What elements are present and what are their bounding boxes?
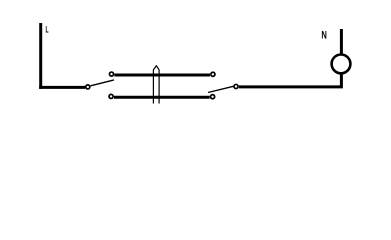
svg-text:N: N [321, 30, 327, 42]
switch SW2 blade [208, 86, 233, 92]
switch SW1 common terminal [86, 85, 90, 89]
wire: L feed vertical [39, 23, 42, 89]
cable loop [153, 66, 159, 104]
wire: L feed horizontal to SW1 common [39, 86, 85, 89]
wire: traveler bottom [114, 96, 210, 99]
switch SW2 common terminal [234, 84, 238, 88]
switch SW1 terminal 2 [109, 94, 113, 98]
switch SW2 terminal 2 [211, 95, 215, 99]
switch SW2 terminal 1 [211, 72, 215, 76]
svg-text:L: L [46, 24, 49, 34]
switch SW1 terminal 1 [109, 72, 113, 76]
lamp E1 [332, 55, 351, 74]
switch SW1 blade [91, 80, 114, 86]
wire: traveler top [114, 74, 210, 77]
wire: N feed vertical [340, 29, 343, 54]
wire: SW2 common to lamp [239, 74, 342, 87]
